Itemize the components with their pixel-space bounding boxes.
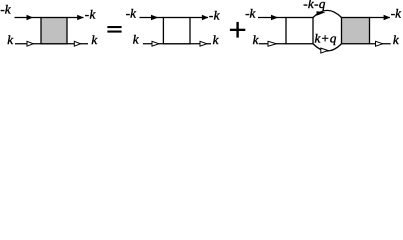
svg-text:k: k	[91, 32, 97, 47]
arrow (open) on bottom-right leg of diagram 2	[200, 41, 207, 46]
wire: top-left leg of diagram 1	[15, 17, 42, 19]
background	[0, 0, 403, 57]
arrow (filled) on top-left leg of diagram 3	[271, 15, 278, 21]
svg-text:-k: -k	[0, 2, 10, 17]
svg-text:k: k	[393, 32, 399, 47]
arrow (filled) at end of top-right leg of diagram 3	[384, 15, 391, 21]
arrow (filled) at end of top-right leg of diagram 2	[202, 15, 209, 21]
vertex box (open) of diagram 2	[163, 18, 190, 44]
wire: bottom-right leg of diagram 3	[370, 43, 391, 45]
svg-text:-k: -k	[209, 7, 220, 22]
svg-text:k: k	[253, 32, 259, 47]
wire: bottom line of diagram 2	[143, 43, 211, 45]
svg-text:-k-q: -k-q	[303, 0, 326, 11]
arrow (filled) on top-left leg of diagram 1	[27, 15, 34, 21]
arrow (open) on bottom-right leg of diagram 1	[74, 41, 80, 46]
arrow (open) on bottom-left leg of diagram 3	[268, 41, 276, 46]
svg-text:-k: -k	[85, 6, 96, 21]
vertex box (open) of diagram 3	[286, 18, 313, 44]
svg-text:k: k	[7, 32, 13, 47]
arrow (open) on bottom-left leg of diagram 1	[27, 41, 33, 46]
svg-text:k: k	[133, 31, 139, 46]
svg-text:k+q: k+q	[315, 31, 337, 46]
vertex box (shaded) of diagram 3	[342, 18, 370, 44]
equals sign	[107, 26, 121, 33]
svg-text:-k: -k	[391, 5, 401, 20]
propagator arc bottom (k+q) of diagram 3	[313, 44, 342, 51]
svg-text:-k: -k	[126, 5, 136, 20]
wire: top-left leg of diagram 3	[258, 17, 286, 19]
arrow (open) on bottom-left leg of diagram 2	[152, 41, 159, 46]
arrow (open) on bottom-right leg of diagram 3	[376, 41, 383, 46]
vertex box (shaded) of diagram 1	[41, 18, 67, 44]
wire: top-left leg of diagram 2	[140, 17, 164, 19]
plus sign	[230, 22, 245, 38]
arrow (open) on bottom arc of diagram 3	[321, 48, 328, 53]
arrow (filled) on top arc of diagram 3	[317, 11, 326, 15]
wire: bottom-left leg of diagram 3	[259, 43, 286, 45]
wire: bottom line of diagram 1	[15, 43, 88, 45]
wire: top-right leg of diagram 1	[67, 17, 84, 19]
arrow (filled) at end of top-right leg of diagram 1	[77, 15, 84, 21]
svg-text:-k: -k	[245, 5, 255, 20]
propagator arc top (-k-q) of diagram 3	[313, 10, 342, 17]
wire: top-right leg of diagram 2	[190, 17, 208, 19]
wire: top-right leg of diagram 3	[370, 17, 390, 19]
arrow (filled) on top-left leg of diagram 2	[151, 15, 158, 21]
svg-text:k: k	[213, 32, 219, 47]
